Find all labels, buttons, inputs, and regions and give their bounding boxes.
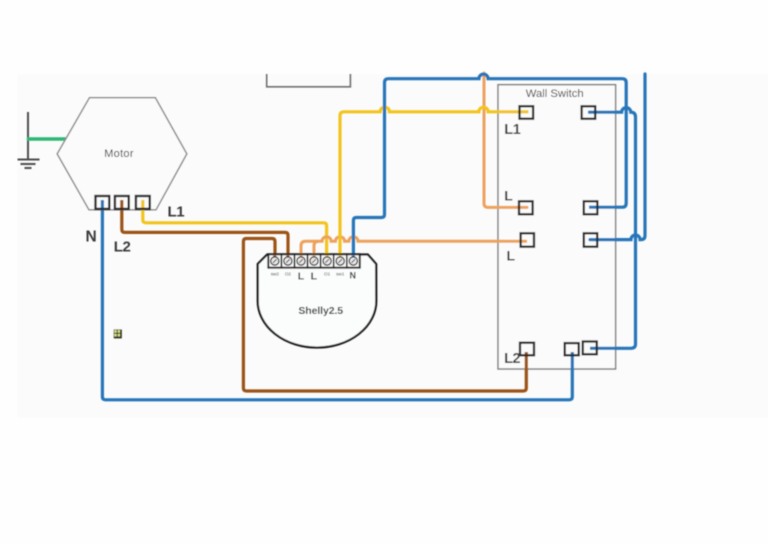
shelly screws	[271, 257, 358, 265]
wire blue: wall switch row3 right going up, free end at top, bump over vertical	[590, 74, 645, 240]
wire L orange second riser	[314, 241, 319, 261]
svg-text:sw2: sw2	[271, 272, 280, 277]
svg-text:L: L	[504, 188, 513, 204]
wire L2 brown: motor L2 to shelly O2	[122, 200, 288, 261]
wire L1 yellow: motor L1 to shelly O1	[143, 200, 327, 261]
wall switch terminal row1 right	[582, 106, 596, 119]
wire blue: wall switch row1 right to row4 right, bump over vertical	[588, 108, 636, 349]
wire N blue: shelly N up, over top, down to wall switch row2 right terminal, bump over orange	[353, 74, 626, 261]
wall switch terminal row3 right	[584, 233, 597, 246]
svg-text:L: L	[507, 248, 516, 264]
motor terminal 2	[115, 196, 129, 209]
svg-text:L: L	[311, 271, 318, 283]
motor terminal 1	[96, 196, 110, 209]
wall switch terminal row2 right	[584, 201, 598, 214]
ground	[18, 112, 40, 168]
wire N blue: motor N down, bottom run, up to wall switch bottom-middle terminal	[102, 200, 572, 400]
svg-text:N: N	[86, 229, 97, 246]
svg-text:O1: O1	[324, 272, 331, 277]
shelly body	[258, 255, 377, 348]
earth wire green	[27, 137, 66, 140]
svg-text:O2: O2	[285, 272, 292, 277]
wall switch terminal row1 left L1	[520, 106, 534, 119]
svg-text:L1: L1	[504, 122, 520, 138]
wall switch terminal row3 left	[521, 233, 534, 246]
wall switch terminal row4 L2	[520, 343, 534, 356]
svg-text:L: L	[298, 271, 305, 283]
wire sw2 brown: shelly sw2 up-left-down-right to wall switch L2	[243, 239, 526, 392]
wall switch terminal row2 left	[519, 201, 533, 214]
wall switch terminal row4 right	[583, 342, 597, 355]
svg-text:L1: L1	[168, 204, 185, 221]
bracket enclosure top center	[267, 74, 351, 87]
svg-text:L2: L2	[114, 239, 131, 256]
svg-text:N: N	[350, 271, 357, 281]
wall switch terminal row4 middle	[565, 343, 579, 355]
svg-text:Shelly2.5: Shelly2.5	[298, 305, 343, 317]
small icon	[114, 330, 122, 339]
wire stubs into shelly cells	[275, 255, 354, 258]
shelly terminal strip	[268, 254, 360, 267]
wire L orange: shelly L terminals to wall switch middle-left L terminal, bumps over yellow,yellow,blue	[301, 237, 527, 261]
canvas region	[18, 74, 768, 417]
motor M (hexagon)	[57, 98, 187, 210]
svg-text:Wall Switch: Wall Switch	[526, 88, 584, 100]
wire sw1 yellow: shelly sw1 up and right to wall switch L1, bumps over blue and orange	[340, 107, 529, 261]
motor terminal 3	[136, 196, 150, 209]
svg-text:L2: L2	[504, 351, 520, 367]
wire orange vertical: free end above blue run down to wall switch upper L terminal	[484, 73, 527, 207]
svg-text:sw1: sw1	[336, 272, 345, 277]
wall switch box	[498, 85, 616, 369]
svg-text:Motor: Motor	[104, 148, 134, 160]
